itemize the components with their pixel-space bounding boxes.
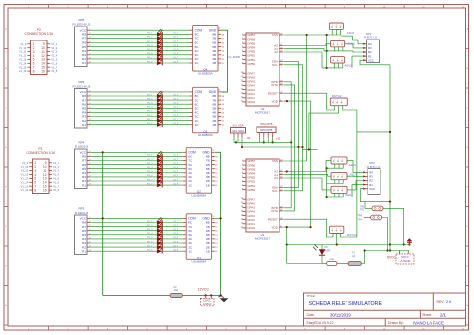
svg-text:U1_8: U1_8: [173, 123, 179, 125]
svg-text:VSS: VSS: [272, 159, 278, 163]
svg-text:VCC: VCC: [369, 187, 375, 191]
svg-text:U1_7: U1_7: [173, 57, 179, 59]
wire 12V feed: [102, 152, 104, 295]
svg-text:U1_1: U1_1: [173, 155, 179, 157]
wire GND bus lower: [215, 152, 221, 295]
svg-text:V1_14: V1_14: [19, 61, 27, 65]
wire branch 131.9: [357, 131, 390, 133]
svg-text:GPB0: GPB0: [247, 188, 255, 192]
svg-text:RP3: RP3: [78, 206, 84, 210]
wire A2 U2 to jumper A1U2-left: [283, 44, 330, 46]
wire RP1 VCC to 5V rail: [360, 60, 390, 250]
connector P2 CONNECTION 1/16: [19, 28, 58, 74]
wire A0 U2 to lower rail: [283, 52, 326, 68]
svg-text:V1_6: V1_6: [53, 180, 60, 184]
wire RP1 R4 to VSS rail: [358, 43, 363, 45]
svg-text:V1_3: V1_3: [53, 169, 60, 173]
svg-text:ULN2803A: ULN2803A: [198, 71, 213, 75]
svg-text:R1_5: R1_5: [147, 49, 153, 51]
svg-text:1B: 1B: [212, 123, 216, 127]
svg-text:12VGC: 12VGC: [203, 302, 212, 306]
svg-text:R1_2: R1_2: [147, 225, 153, 227]
wire LED cathode: [287, 255, 322, 263]
svg-text:VDD: VDD: [272, 99, 279, 103]
svg-text:G: G: [466, 266, 468, 268]
svg-text:R1_8: R1_8: [147, 123, 153, 125]
svg-text:R1_1: R1_1: [147, 155, 153, 157]
svg-text:R1_4: R1_4: [147, 233, 153, 235]
svg-text:U1_6: U1_6: [173, 115, 179, 117]
svg-text:U1_8: U1_8: [173, 250, 179, 252]
svg-text:Date:: Date:: [307, 313, 315, 317]
svg-text:U1_5: U1_5: [173, 237, 179, 239]
power flag VCC arrow: [406, 238, 412, 244]
wire VCC row 2: [90, 91, 189, 93]
svg-text:V1_9: V1_9: [20, 42, 27, 46]
wire F1 to 5V rail: [361, 251, 364, 264]
svg-text:V1_10: V1_10: [21, 165, 29, 169]
svg-text:TITLE:: TITLE:: [307, 294, 316, 298]
wire GND bus upper: [220, 30, 227, 92]
svg-text:MCP23017: MCP23017: [255, 111, 270, 115]
svg-text:INTA INTB: INTA INTB: [260, 122, 272, 126]
svg-text:A1U2: A1U2: [347, 41, 355, 45]
svg-text:R1_4: R1_4: [147, 107, 153, 109]
svg-text:R1_1: R1_1: [147, 33, 153, 35]
svg-text:R1_6: R1_6: [147, 53, 153, 55]
svg-text:U1_4: U1_4: [173, 107, 179, 109]
wire jumper A2U1 to RP2 R4: [347, 160, 363, 172]
LED D5 PWR: [313, 245, 330, 256]
svg-text:Sheet:: Sheet:: [422, 313, 432, 317]
wire H rail lower: [242, 146, 303, 148]
svg-text:GPA0: GPA0: [247, 226, 255, 230]
svg-text:U1_1: U1_1: [173, 94, 179, 96]
wire A1 U2 to pad rail: [283, 49, 326, 51]
darlington array Q2 ULN2803A: [186, 148, 218, 198]
svg-text:R BIT1 U1: R BIT1 U1: [367, 165, 381, 169]
svg-text:GPB0: GPB0: [247, 62, 255, 66]
svg-text:EasyEDA V5.9.22: EasyEDA V5.9.22: [307, 321, 334, 325]
wire VDD U2 to U1: [283, 101, 310, 227]
svg-text:R1_6: R1_6: [147, 241, 153, 243]
jumper TP1 TP2: [358, 214, 389, 251]
svg-text:U1_2: U1_2: [173, 98, 179, 100]
darlington array Q3 ULN2803A: [193, 87, 225, 137]
I/O expander U2 MCP23017: [241, 33, 283, 115]
svg-text:V1_11: V1_11: [21, 169, 29, 173]
resistor network RP6: [72, 18, 91, 66]
svg-text:V1_16: V1_16: [21, 188, 29, 192]
jumper A1U2: [326, 40, 356, 52]
svg-text:V1_8: V1_8: [51, 69, 58, 73]
svg-text:R1_2: R1_2: [147, 98, 153, 100]
svg-text:RESET: RESET: [268, 91, 278, 95]
wire RESET U2: [283, 93, 334, 110]
svg-text:8: 8: [33, 69, 35, 73]
svg-text:2A: 2A: [352, 255, 355, 258]
svg-text:R1_2: R1_2: [147, 37, 153, 39]
svg-text:R1_7: R1_7: [147, 179, 153, 181]
svg-text:1B: 1B: [212, 61, 216, 65]
text box 12VCC: [200, 295, 214, 305]
wire SCL bus: [283, 65, 302, 191]
wire VDD drop to LED chain: [286, 227, 288, 263]
wire RSTU1 right: [340, 236, 357, 238]
svg-text:R LED2-8: R LED2-8: [75, 145, 89, 149]
svg-text:R1_5: R1_5: [147, 111, 153, 113]
svg-text:R1_6: R1_6: [147, 175, 153, 177]
svg-text:U1_3: U1_3: [173, 229, 179, 231]
svg-text:R1_7: R1_7: [147, 119, 153, 121]
LED array row 2: [157, 90, 163, 127]
svg-text:TR2: TR2: [360, 209, 365, 212]
svg-text:R1_6: R1_6: [147, 115, 153, 117]
svg-text:MCP23017: MCP23017: [255, 237, 270, 241]
resistor network RP5: [72, 80, 91, 128]
wire RSTU2 center: [309, 113, 339, 149]
svg-text:R1_4: R1_4: [147, 167, 153, 169]
svg-text:TPA: TPA: [358, 214, 363, 217]
svg-text:REV:: REV:: [437, 300, 445, 304]
svg-text:5VCC: 5VCC: [387, 255, 397, 259]
svg-text:CONNECTION 1/16: CONNECTION 1/16: [26, 151, 55, 155]
resistor network RP4: [74, 140, 91, 188]
svg-text:R1_1: R1_1: [147, 94, 153, 96]
svg-text:R1_3: R1_3: [147, 229, 153, 231]
wires row 3: [90, 155, 186, 186]
svg-text:V1_3: V1_3: [51, 50, 58, 54]
wire VSS U2: [283, 34, 341, 36]
jumper RSTU2: [330, 94, 347, 113]
svg-text:2/1: 2/1: [440, 312, 446, 317]
svg-text:16: 16: [41, 69, 45, 73]
resistor network RP1 R BIT1 U2: [363, 32, 379, 63]
svg-text:V1_14: V1_14: [21, 180, 29, 184]
wire R1 RP1: [352, 56, 363, 68]
svg-text:V1_9: V1_9: [22, 161, 29, 165]
svg-text:V1_15: V1_15: [21, 184, 29, 188]
svg-text:V1_11: V1_11: [19, 50, 27, 54]
svg-text:U1_6: U1_6: [173, 241, 179, 243]
junction Q1 GND: [215, 217, 221, 219]
svg-text:CONNECTION 1/16: CONNECTION 1/16: [25, 32, 54, 36]
svg-text:R1: R1: [82, 123, 86, 127]
connector P1 CONNECTION 1/16: [21, 147, 60, 193]
LED array row 4: [157, 217, 163, 254]
svg-text:V1_2: V1_2: [51, 46, 58, 50]
svg-text:V1_15: V1_15: [19, 65, 27, 69]
svg-text:V1_5: V1_5: [53, 177, 60, 181]
svg-text:U1_6: U1_6: [173, 53, 179, 55]
svg-text:V1_12: V1_12: [21, 173, 29, 177]
wire H rail right: [303, 149, 318, 151]
svg-text:U1_8: U1_8: [173, 61, 179, 63]
svg-text:V1_4: V1_4: [53, 173, 60, 177]
title block: [304, 293, 466, 326]
svg-text:V1_1: V1_1: [51, 42, 58, 46]
svg-text:V1_13: V1_13: [21, 177, 29, 181]
svg-text:1B: 1B: [206, 249, 210, 253]
wires row 2: [90, 94, 192, 125]
wire 12V bottom: [103, 294, 170, 296]
wire INTB bus: [283, 82, 291, 208]
jumper A2U1: [326, 157, 357, 169]
wire F2 to ground corner: [183, 294, 221, 296]
jumper TR1 TR2: [360, 202, 405, 246]
svg-text:V1_6: V1_6: [51, 61, 58, 65]
svg-text:R1_5: R1_5: [147, 171, 153, 173]
svg-text:1B: 1B: [206, 183, 210, 187]
svg-text:U1_7: U1_7: [173, 119, 179, 121]
wire 5V rail: [365, 250, 409, 252]
svg-text:V1_10: V1_10: [19, 46, 27, 50]
svg-text:U1_4: U1_4: [173, 233, 179, 235]
svg-text:U1_2: U1_2: [173, 37, 179, 39]
svg-text:30/11/2019: 30/11/2019: [330, 312, 351, 317]
svg-text:V1_2: V1_2: [53, 165, 60, 169]
svg-text:R1_5: R1_5: [147, 237, 153, 239]
svg-text:A2U1: A2U1: [349, 163, 357, 167]
wire R1 RP2: [352, 185, 363, 197]
jumper A1U1: [327, 173, 358, 184]
jumper A0U1: [326, 186, 354, 198]
svg-text:ULN2803A: ULN2803A: [198, 133, 213, 137]
svg-text:R1_2: R1_2: [147, 159, 153, 161]
wire VCC row 3: [90, 151, 183, 153]
LED array row 1: [157, 29, 163, 66]
darlington array Q1 ULN2803A: [186, 214, 218, 264]
wire A2 U1 to jumper A2U1-left: [283, 160, 331, 171]
svg-text:R1_3: R1_3: [147, 103, 153, 105]
svg-text:R1_8: R1_8: [147, 61, 153, 63]
svg-text:U1_3: U1_3: [173, 103, 179, 105]
svg-text:RSTU2: RSTU2: [332, 94, 342, 98]
svg-text:U1_2: U1_2: [173, 159, 179, 161]
svg-text:U1_4: U1_4: [173, 45, 179, 47]
svg-text:R1_7: R1_7: [147, 57, 153, 59]
svg-text:R1: R1: [82, 183, 86, 187]
svg-text:12VCC: 12VCC: [198, 287, 210, 291]
svg-text:VDD: VDD: [272, 225, 279, 229]
svg-text:A0: A0: [274, 50, 278, 54]
svg-text:R1: R1: [82, 61, 86, 65]
svg-text:V1_5: V1_5: [51, 58, 58, 62]
wire RP2 VCC: [360, 189, 390, 202]
wire RP1 R2: [343, 51, 363, 52]
svg-text:U1_2: U1_2: [173, 225, 179, 227]
svg-text:R LED1-8 U2: R LED1-8 U2: [72, 84, 90, 88]
svg-text:U1_7: U1_7: [173, 179, 179, 181]
svg-text:VSS: VSS: [272, 33, 278, 37]
svg-text:RP5: RP5: [78, 80, 84, 84]
svg-text:U1_1: U1_1: [173, 221, 179, 223]
svg-text:5VCC: 5VCC: [401, 255, 408, 259]
svg-text:INTA: INTA: [271, 209, 278, 213]
svg-text:R1: R1: [82, 249, 86, 253]
svg-text:H1: H1: [247, 136, 251, 140]
wire RESET U1: [283, 219, 333, 237]
svg-text:PWR: PWR: [325, 249, 331, 252]
wire R6 to F1: [337, 263, 348, 265]
svg-text:+5.5GND: +5.5GND: [400, 259, 411, 263]
svg-text:10A: 10A: [174, 288, 179, 292]
svg-text:SCL: SCL: [272, 63, 278, 67]
svg-text:U1_5: U1_5: [173, 171, 179, 173]
svg-text:U1_4: U1_4: [173, 167, 179, 169]
svg-text:R1_3: R1_3: [147, 163, 153, 165]
wire H rail upper: [234, 141, 291, 143]
svg-text:SCL: SCL: [272, 189, 278, 193]
svg-text:V1_1: V1_1: [53, 161, 60, 165]
wire jumper A1U1 to RP2 R3: [347, 175, 363, 177]
svg-text:U1_6: U1_6: [173, 175, 179, 177]
wire A rail: [287, 244, 410, 246]
svg-text:U1_5: U1_5: [173, 49, 179, 51]
wire SDA bus: [283, 61, 298, 187]
resistor network RP3: [74, 206, 91, 254]
LED array row 3: [157, 151, 163, 188]
wire A1 U1 to jumper A1U1-left: [283, 175, 331, 177]
svg-text:2.0: 2.0: [446, 300, 451, 304]
wire A0 U1 to jumper A0U1-left: [283, 178, 331, 190]
svg-text:R1_3: R1_3: [147, 41, 153, 43]
text box 5VCC +5 SGND: [396, 251, 414, 265]
svg-text:U1_3: U1_3: [173, 163, 179, 165]
svg-text:ULN2803A: ULN2803A: [192, 194, 207, 198]
darlington array Q4 ULN2803A: [193, 26, 225, 76]
fuse F1 2A: [348, 252, 361, 266]
svg-text:U1_1: U1_1: [173, 33, 179, 35]
svg-text:8: 8: [34, 188, 36, 192]
svg-text:R1_4: R1_4: [147, 45, 153, 47]
svg-text:A2U2: A2U2: [347, 31, 355, 35]
I/O expander U1 MCP23017: [241, 159, 283, 241]
ground symbol: [218, 295, 228, 302]
svg-text:V1_7: V1_7: [53, 184, 60, 188]
svg-text:V1_7: V1_7: [51, 65, 58, 69]
svg-text:U1_ROM8: U1_ROM8: [229, 56, 241, 59]
resistor network RP2 R BIT1 U1: [363, 161, 380, 194]
svg-text:R1_7: R1_7: [147, 245, 153, 247]
svg-text:R LED1-8: R LED1-8: [75, 211, 89, 215]
svg-text:GPA0: GPA0: [247, 100, 255, 104]
wires row 4: [90, 221, 186, 252]
wire jumper A1U2 to RP1 R3: [345, 44, 364, 48]
svg-text:ULN2803A: ULN2803A: [192, 260, 207, 264]
jumper A2U2: [329, 23, 354, 35]
wire VCC row 1: [90, 29, 189, 31]
svg-text:R LED2-8 U2: R LED2-8 U2: [72, 23, 90, 27]
wires row 1: [90, 33, 192, 64]
wire VCC row 4: [90, 217, 183, 219]
svg-text:SCL SDA: SCL SDA: [232, 129, 244, 133]
svg-text:G: G: [5, 266, 7, 268]
svg-text:16: 16: [43, 188, 47, 192]
svg-text:SCHEDA RELE' SIMULATORE: SCHEDA RELE' SIMULATORE: [309, 301, 383, 307]
svg-text:R1_8: R1_8: [147, 250, 153, 252]
svg-text:A0: A0: [274, 176, 278, 180]
svg-text:RP6: RP6: [78, 18, 84, 22]
wire jumper A0U1 to RP2 R2: [347, 181, 363, 190]
svg-text:U1_7: U1_7: [173, 245, 179, 247]
svg-text:IVANO LA FACE: IVANO LA FACE: [413, 320, 444, 325]
wire addr rail vertical: [326, 35, 328, 68]
svg-text:SCL SDA: SCL SDA: [232, 123, 243, 127]
svg-text:RP4: RP4: [78, 140, 84, 144]
jumper RSTU1: [330, 226, 358, 244]
svg-text:R BIT1 U2: R BIT1 U2: [364, 36, 378, 40]
svg-text:VCC: VCC: [368, 58, 374, 62]
svg-text:R1_1: R1_1: [147, 221, 153, 223]
svg-text:V1_4: V1_4: [51, 54, 58, 58]
svg-text:R1_8: R1_8: [147, 183, 153, 185]
wire VSS drop: [306, 35, 308, 161]
svg-text:V1_16: V1_16: [19, 69, 27, 73]
svg-text:INTA: INTA: [271, 83, 278, 87]
header H2 INTA INTB: [257, 122, 281, 143]
svg-text:V1_8: V1_8: [53, 188, 60, 192]
svg-text:Drawn By:: Drawn By:: [388, 321, 404, 325]
svg-text:INTA INTB: INTA INTB: [260, 128, 272, 132]
fuse F2 10A: [170, 285, 183, 298]
svg-text:U1_3: U1_3: [173, 41, 179, 43]
svg-text:PWR: PWR: [329, 259, 335, 261]
svg-text:U1_8: U1_8: [173, 183, 179, 185]
svg-text:V1_12: V1_12: [19, 54, 27, 58]
svg-text:V1_13: V1_13: [19, 58, 27, 62]
header H1 SCL SDA: [231, 123, 252, 148]
wire RSTU2 right rail: [343, 110, 357, 237]
svg-text:RSTU1: RSTU1: [347, 233, 357, 237]
svg-text:U1_5: U1_5: [173, 111, 179, 113]
resistor R6: [327, 259, 337, 265]
wire addr rail vertical lower: [326, 168, 328, 197]
wire INTA bus: [283, 85, 294, 211]
jumper A0U2: [326, 57, 353, 69]
svg-text:RESET: RESET: [268, 217, 278, 221]
svg-text:H2: H2: [277, 137, 281, 141]
svg-text:A0U2: A0U2: [345, 63, 353, 67]
